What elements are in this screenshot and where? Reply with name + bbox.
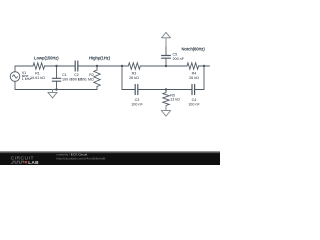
- ground (below R5): [162, 106, 171, 117]
- wire twin-T input down to bottom path: [122, 66, 135, 90]
- resistor R1: [33, 63, 45, 69]
- node junction R2 top: [96, 65, 98, 67]
- label C1 value: [62, 73, 74, 82]
- CircuitLab watermark bar: [0, 151, 220, 165]
- capacitor C4: [192, 85, 195, 95]
- label V1 value: [22, 71, 32, 81]
- annotation Highp(1Hz): [89, 56, 111, 61]
- svg-text:Notch(60Hz): Notch(60Hz): [182, 47, 206, 52]
- voltage source V1: [10, 72, 20, 82]
- capacitor C2: [75, 61, 78, 71]
- node junction twin-T input: [121, 65, 123, 67]
- watermark text: [57, 153, 106, 161]
- svg-text:R1: R1: [35, 72, 40, 76]
- node junction C5 bottom: [165, 65, 167, 67]
- svg-text:10.61 kΩ: 10.61 kΩ: [30, 76, 45, 80]
- annotation Notch(60Hz): [182, 47, 206, 52]
- svg-text:100 nF: 100 nF: [131, 103, 143, 107]
- resistor R2: [94, 66, 100, 90]
- label R1 value: [30, 72, 45, 81]
- ground (left): [48, 90, 57, 98]
- wire R3 to R4: [140, 65, 187, 67]
- label C3 value: [131, 98, 143, 107]
- svg-text:200 nF: 200 nF: [173, 57, 185, 61]
- label C2 value: [71, 73, 83, 82]
- label R2 value: [78, 73, 94, 82]
- wire C2 to R3: [78, 65, 129, 67]
- svg-text:R3: R3: [132, 72, 137, 76]
- svg-text:R4: R4: [192, 72, 197, 76]
- svg-text:100 nF: 100 nF: [188, 103, 200, 107]
- resistor R4: [187, 63, 199, 69]
- svg-text:R2: R2: [89, 73, 94, 77]
- node junction R5 top: [165, 88, 167, 90]
- svg-text:C2: C2: [74, 73, 79, 77]
- label R4 value: [189, 72, 199, 81]
- label R5 value: [170, 94, 180, 102]
- svg-text:http://circuitlab.com/c/4nm3b8: http://circuitlab.com/c/4nm3b8mkd8: [57, 156, 106, 160]
- resistor R5: [163, 90, 169, 106]
- svg-text:26 kΩ: 26 kΩ: [189, 76, 199, 80]
- wire output stub: [204, 65, 210, 67]
- wire C3 to C4: [138, 89, 192, 91]
- svg-text:C5: C5: [173, 52, 178, 56]
- label C4 value: [188, 98, 200, 107]
- wire R1 to C2: [45, 65, 76, 67]
- svg-text:13 kΩ: 13 kΩ: [170, 97, 180, 101]
- capacitor C5: [162, 47, 171, 66]
- wire top rail V1 to R1: [15, 66, 33, 72]
- wire output down to C4: [195, 66, 204, 90]
- CircuitLab logo: [11, 156, 40, 166]
- wire V1 bottom to ground rail: [15, 81, 97, 89]
- capacitor C1: [52, 66, 60, 90]
- svg-text:C4: C4: [192, 98, 197, 102]
- node junction R1/C1: [55, 65, 57, 67]
- svg-text:1.591 MΩ: 1.591 MΩ: [78, 78, 94, 82]
- ground (up, above C5): [162, 32, 171, 47]
- svg-text:C1: C1: [62, 73, 67, 77]
- label C5 value: [173, 52, 185, 61]
- svg-text:C3: C3: [135, 98, 140, 102]
- svg-text:Highp(1Hz): Highp(1Hz): [89, 56, 111, 61]
- svg-text:Lowp(150Hz): Lowp(150Hz): [34, 56, 59, 61]
- node junction C1 bottom: [55, 88, 57, 90]
- svg-text:LAB: LAB: [28, 160, 39, 165]
- resistor R3: [128, 63, 140, 69]
- wire R4 to output node: [199, 65, 205, 67]
- node junction output: [203, 65, 205, 67]
- label R3 value: [129, 72, 139, 81]
- annotation Lowp(150Hz): [34, 56, 59, 61]
- svg-text:26 kΩ: 26 kΩ: [129, 76, 139, 80]
- capacitor C3: [135, 85, 138, 95]
